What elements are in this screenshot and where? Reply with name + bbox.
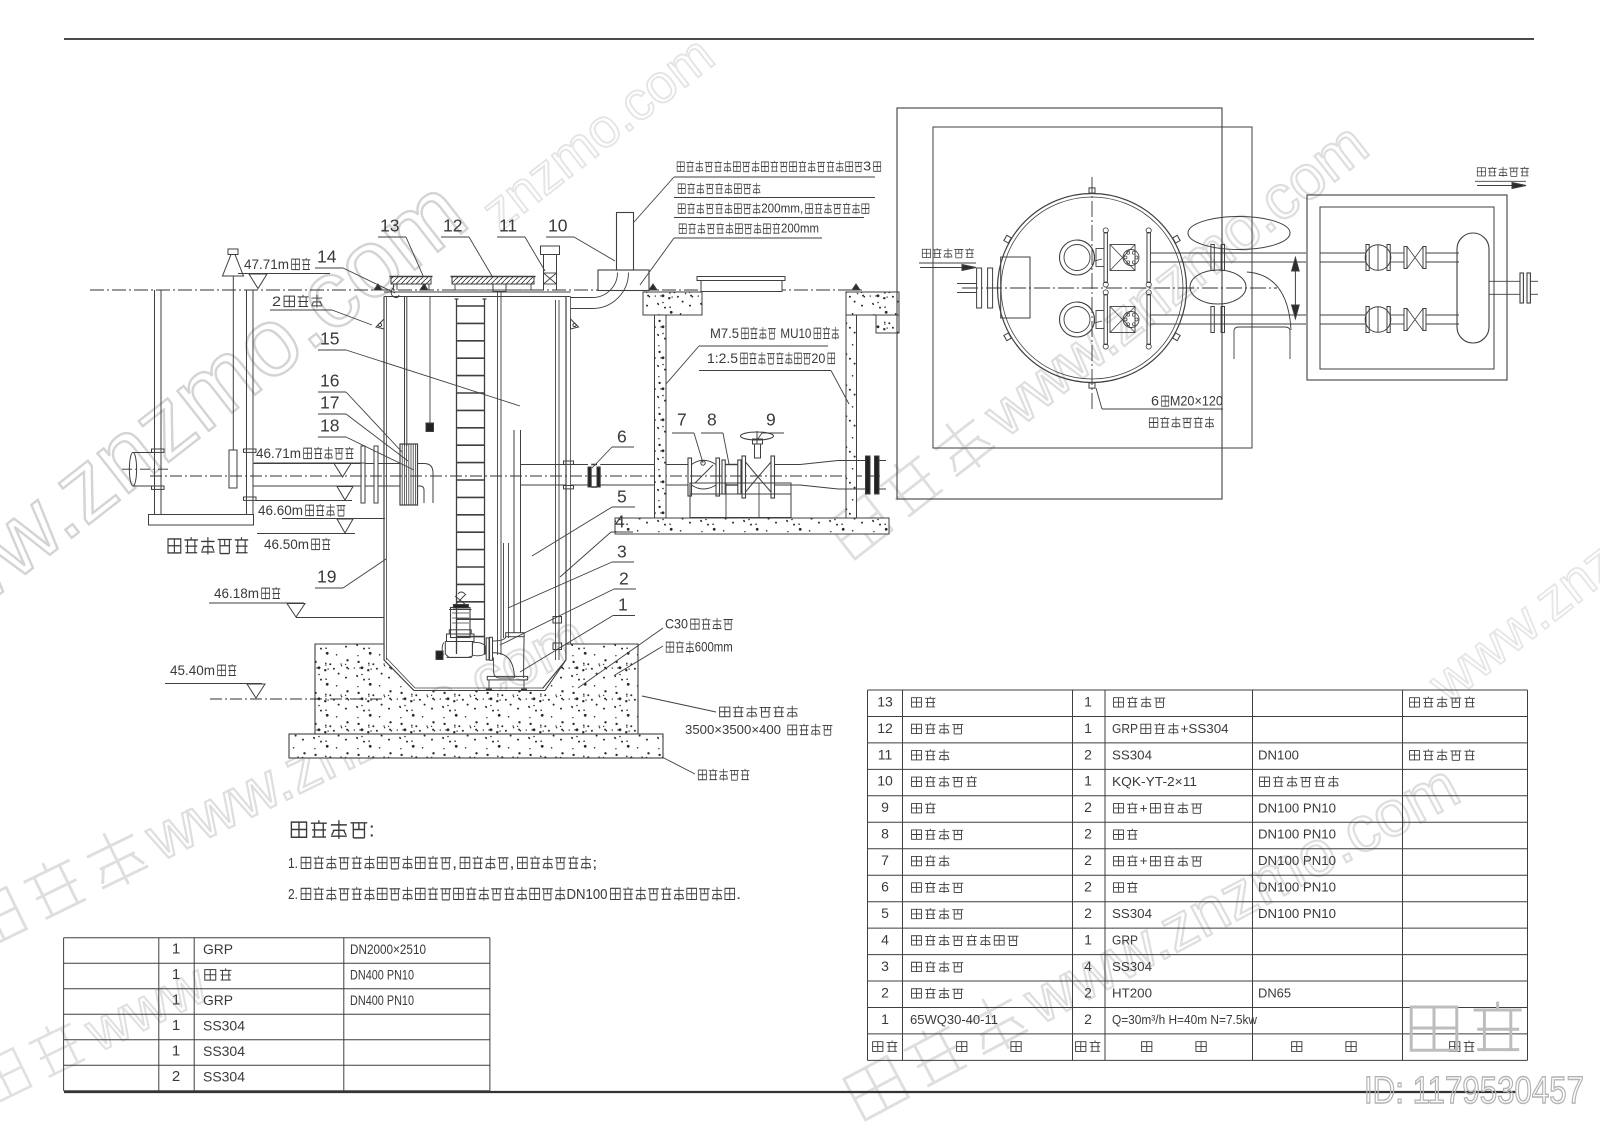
table header row: [873, 1042, 883, 1052]
flexible joint 8: [722, 460, 725, 494]
callout 7: [672, 409, 703, 463]
svg-text:DN400 PN10: DN400 PN10: [350, 993, 414, 1009]
svg-text:1: 1: [172, 1043, 180, 1060]
well cover 13 (checkered plate): [391, 277, 431, 285]
callout 10: [546, 215, 615, 261]
callout 1: [520, 594, 635, 672]
svg-text:DN100: DN100: [567, 886, 608, 903]
svg-text:16: 16: [320, 370, 339, 390]
svg-text:6: 6: [881, 879, 889, 895]
svg-text:13: 13: [877, 693, 893, 709]
svg-text:4: 4: [615, 511, 625, 531]
svg-text:1: 1: [172, 991, 180, 1008]
lifting lug left (2个吊耳): [376, 319, 384, 329]
svg-text:;: ;: [592, 855, 597, 872]
svg-text:1: 1: [172, 1017, 180, 1034]
plan inlet pipe & flanges: [957, 283, 977, 285]
svg-text:19: 19: [317, 566, 336, 586]
interior outlet pipe drop near left wall: [404, 297, 406, 447]
collection well right wall: [246, 290, 248, 515]
svg-text:46.50m: 46.50m: [264, 537, 309, 553]
plan pump at y=257.5: [1060, 240, 1095, 275]
svg-text:46.60m: 46.60m: [258, 503, 303, 519]
svg-text:.: .: [736, 886, 741, 903]
inlet pipe well to tank: [253, 463, 361, 465]
svg-text:DN100 PN10: DN100 PN10: [1258, 800, 1336, 815]
svg-text:3: 3: [617, 541, 627, 561]
level sensor protection tube 4: [555, 300, 557, 660]
svg-text:6: 6: [617, 426, 627, 446]
base plate label: [720, 707, 730, 717]
svg-text:2: 2: [1084, 905, 1092, 921]
svg-text:1: 1: [881, 1011, 889, 1027]
svg-text:DN100 PN10: DN100 PN10: [1258, 880, 1336, 895]
svg-text:1.: 1.: [288, 855, 298, 872]
callout 18: [318, 415, 414, 470]
callout 9: [757, 409, 784, 440]
svg-text:14: 14: [317, 246, 337, 266]
collection well bottom slab: [149, 515, 254, 526]
rubber flexible joint 16 (striped): [400, 444, 418, 505]
outlet direction label: [1477, 168, 1485, 176]
svg-text:GRP: GRP: [1112, 721, 1138, 736]
watermark right edge: [1416, 481, 1600, 715]
svg-text:20: 20: [811, 351, 825, 367]
svg-text:SS304: SS304: [1112, 959, 1152, 974]
svg-text:7: 7: [677, 409, 687, 429]
watermark band lower-left: [0, 599, 598, 961]
svg-text:6: 6: [1151, 394, 1159, 409]
svg-text:2: 2: [172, 1068, 180, 1085]
parts table (right): [868, 689, 1528, 691]
valve well left wall: [655, 315, 667, 518]
svg-text:45.40m: 45.40m: [170, 663, 215, 679]
svg-text:GRP: GRP: [1112, 933, 1138, 948]
well label 前端集水井: [168, 539, 181, 553]
discharge elbow & pedestal 2 (自耦底座): [486, 638, 489, 660]
pipe wall-crossing ticks left wall: [152, 449, 165, 452]
collection well left wall: [154, 290, 156, 515]
svg-text:9: 9: [881, 799, 889, 815]
inlet direction label: [922, 249, 930, 257]
svg-text:13: 13: [380, 215, 399, 235]
svg-text:200mm,: 200mm,: [761, 201, 803, 216]
elevation 46.50m pump start: [282, 518, 385, 520]
pump guide rails 3: [503, 543, 505, 638]
svg-text:1:2.5: 1:2.5: [707, 351, 738, 367]
svg-text:SS304: SS304: [203, 1070, 245, 1086]
spacing arrow between outlet pipes: [1294, 258, 1296, 319]
svg-text:2: 2: [1084, 799, 1092, 815]
tank bottom chamfers and floor: [384, 660, 414, 691]
plan valves at y=257.5: [1320, 252, 1366, 254]
svg-text:5: 5: [617, 486, 627, 506]
svg-text:12: 12: [877, 720, 893, 736]
plan outer rectangle: [897, 108, 1222, 499]
scope break ellipse upper: [1188, 217, 1290, 250]
electrical control cabinet 10: [598, 270, 649, 291]
svg-text:DN100 PN10: DN100 PN10: [1258, 906, 1336, 921]
svg-text:2: 2: [1084, 1011, 1092, 1027]
svg-text:DN100 PN10: DN100 PN10: [1258, 853, 1336, 868]
drawing frame top border: [64, 38, 1534, 40]
callout 4: [560, 511, 633, 577]
inlet elbow inside tank: [418, 464, 434, 504]
svg-text:+: +: [1140, 853, 1148, 868]
valve well right wall: [846, 315, 857, 518]
collection well inlet pipe (outside, DN400): [133, 452, 155, 454]
callout 8: [701, 409, 729, 464]
svg-text:3: 3: [881, 958, 889, 974]
submersible pump 1 (65WQ30-40-11): [451, 608, 471, 638]
callout 6: [592, 426, 634, 468]
svg-text:2: 2: [1084, 984, 1092, 1000]
pipe ticks at tank right wall: [564, 461, 574, 464]
valve well floor slab: [615, 518, 889, 534]
cable conduit tube: [497, 292, 499, 656]
callout 13: [378, 215, 424, 278]
watermark band top-middle faint: [470, 24, 724, 241]
znzmo logo bottom right: [1411, 1007, 1457, 1050]
plan inner rectangle: [933, 127, 1252, 448]
pump discharge riser pipe 5: [513, 430, 515, 633]
callout 12: [441, 215, 492, 276]
svg-text:ID: 1179530457: ID: 1179530457: [1364, 1070, 1584, 1112]
svg-text:2: 2: [1084, 852, 1092, 868]
svg-text:GRP: GRP: [203, 993, 233, 1009]
callout 5: [532, 486, 635, 556]
left partial table: [64, 937, 490, 939]
callout 3: [508, 541, 634, 608]
valve well top-right ledge: [846, 292, 899, 315]
svg-text:,: ,: [452, 855, 457, 872]
flange pair 17/18: [361, 446, 365, 503]
svg-text:1: 1: [1084, 693, 1092, 709]
svg-text:600mm: 600mm: [695, 640, 733, 655]
outlet pipe through tank wall to flexible joint 6: [571, 464, 589, 466]
anchor bolt left: [380, 682, 382, 697]
plan pump at y=319.5: [1060, 302, 1095, 337]
pump cable weight: [436, 651, 443, 660]
svg-text:2: 2: [1084, 826, 1092, 842]
svg-text:DN2000×2510: DN2000×2510: [350, 942, 426, 958]
svg-text:DN65: DN65: [1258, 986, 1291, 1001]
svg-text:3500×3500×400: 3500×3500×400: [685, 722, 781, 737]
vent pipe 11: [541, 246, 560, 255]
svg-text:2: 2: [881, 984, 889, 1000]
watermark band lower-right: [838, 749, 1471, 1130]
pipe wall-crossing ticks right wall: [244, 449, 257, 452]
svg-text:46.18m: 46.18m: [214, 586, 259, 602]
level sensor cable with weight: [429, 297, 431, 424]
svg-text:2.: 2.: [288, 886, 298, 903]
svg-text:3: 3: [863, 159, 871, 174]
svg-text:8: 8: [881, 826, 889, 842]
tank top plate: [384, 291, 571, 293]
svg-text:11: 11: [878, 746, 893, 762]
svg-text:9: 9: [766, 409, 776, 429]
pump discharge claw to elbow: [472, 642, 485, 655]
scope break blob lower: [1190, 270, 1246, 304]
svg-text:SS304: SS304: [1112, 906, 1152, 921]
scope break bracket: [1234, 327, 1290, 359]
svg-text:M7.5: M7.5: [710, 326, 739, 342]
pump station tank right wall: [565, 297, 567, 661]
svg-text:DN100: DN100: [1258, 747, 1299, 762]
flexible joint 6: [588, 467, 591, 487]
svg-text:HT200: HT200: [1112, 986, 1152, 1001]
callout 11: [497, 215, 545, 271]
valve well plan inner: [1320, 207, 1494, 369]
svg-text:2: 2: [619, 568, 629, 588]
safety grille cover 12: [452, 277, 534, 285]
callout 17: [318, 392, 408, 461]
plan tank circle: [998, 194, 1187, 383]
anchor bolt right: [571, 682, 573, 697]
svg-text:2: 2: [272, 294, 281, 310]
svg-text:M20×120: M20×120: [1170, 394, 1223, 409]
lower concrete slab 3500x3500x400: [289, 734, 663, 758]
svg-text:15: 15: [320, 328, 339, 348]
plan centerlines: [1091, 177, 1093, 411]
riser to outlet elbow: [521, 465, 567, 486]
svg-text:1: 1: [172, 966, 180, 983]
svg-text:1: 1: [1084, 932, 1092, 948]
svg-text:SS304: SS304: [203, 1044, 245, 1060]
svg-text:Q=30m³/h H=40m N=7.5kw: Q=30m³/h H=40m N=7.5kw: [1112, 1012, 1258, 1027]
svg-text::: :: [369, 818, 375, 841]
svg-text:+SS304: +SS304: [1181, 721, 1229, 736]
callout 14: [315, 246, 395, 293]
gate valve 9: [742, 456, 746, 498]
watermark fragment bottom-left corner: [0, 950, 218, 1116]
outlet pipe to valve well: [600, 464, 688, 466]
svg-text:GRP: GRP: [203, 942, 233, 958]
svg-text:10: 10: [548, 215, 568, 235]
svg-text:10: 10: [877, 773, 893, 789]
callout 16: [318, 370, 402, 452]
svg-text:1: 1: [1084, 720, 1092, 736]
watermark band upper-left: [0, 157, 485, 685]
valve well plan outer: [1307, 195, 1507, 380]
svg-text:8: 8: [707, 409, 717, 429]
svg-text:DN100 PN10: DN100 PN10: [1258, 827, 1336, 842]
svg-text:65WQ30-40-11: 65WQ30-40-11: [910, 1012, 998, 1027]
svg-text:17: 17: [320, 392, 339, 412]
svg-text:4: 4: [881, 932, 889, 948]
plan outlet pipe with flange: [1489, 280, 1520, 282]
valve well top-left ledge: [643, 292, 702, 315]
callout 19: [315, 559, 386, 588]
elevation 46.60m inlet pipe bottom: [337, 487, 353, 501]
svg-text:+: +: [1140, 800, 1148, 815]
control cabinet notes: [677, 162, 684, 171]
ladder rungs: [457, 305, 484, 307]
concrete bedding label: [698, 770, 706, 780]
tank base embedded plate: [373, 697, 581, 699]
svg-text:11: 11: [499, 215, 517, 235]
svg-text:18: 18: [320, 415, 339, 435]
check valve 7: [688, 458, 692, 496]
lifting lug right: [571, 319, 579, 329]
lifting hook at tank top: [391, 288, 399, 298]
soil marks on ground line: [374, 284, 382, 290]
level instrument in well: [228, 249, 238, 255]
svg-text:SS304: SS304: [1112, 747, 1152, 762]
upper concrete foundation block (C30): [315, 644, 638, 734]
ladder rails: [456, 299, 458, 654]
valve support blocks: [690, 483, 791, 518]
drawing frame bottom border: [64, 1091, 1516, 1093]
svg-text:200mm: 200mm: [781, 221, 819, 236]
svg-text:,: ,: [510, 855, 515, 872]
svg-text:12: 12: [443, 215, 462, 235]
pipe centerline: [150, 475, 880, 477]
svg-text:C30: C30: [665, 617, 688, 632]
callout 15: [318, 328, 520, 406]
svg-text:46.71m: 46.71m: [256, 446, 301, 462]
svg-text:KQK-YT-2×11: KQK-YT-2×11: [1112, 774, 1197, 789]
svg-text:1: 1: [172, 940, 180, 957]
svg-text:7: 7: [881, 852, 889, 868]
ground level dash-dot line 47.71m: [90, 289, 862, 291]
svg-text:1: 1: [1084, 773, 1092, 789]
svg-text:2: 2: [1084, 879, 1092, 895]
6 expansion bolts on circle: [1089, 188, 1095, 193]
header capsule pipe: [1457, 233, 1489, 343]
svg-text:2: 2: [1084, 746, 1092, 762]
svg-text:4: 4: [1084, 958, 1092, 974]
callout 2: [500, 568, 636, 645]
watermark band across plan view: [820, 109, 1381, 568]
valve well access cover: [697, 277, 785, 281]
cable conduit into tank: [571, 273, 629, 309]
svg-text:MU10: MU10: [780, 326, 811, 342]
svg-text:47.71m: 47.71m: [244, 257, 289, 273]
pipe after valve and reducer: [775, 464, 801, 466]
plan valves at y=319.5: [1320, 314, 1366, 316]
outlet wall flange (dark): [866, 456, 871, 494]
svg-text:1: 1: [618, 594, 628, 614]
svg-text:DN400 PN10: DN400 PN10: [350, 968, 414, 984]
svg-text:SS304: SS304: [203, 1019, 245, 1035]
svg-text:5: 5: [881, 905, 889, 921]
pump station tank left wall: [383, 297, 385, 661]
tech requirements title: [291, 822, 306, 837]
